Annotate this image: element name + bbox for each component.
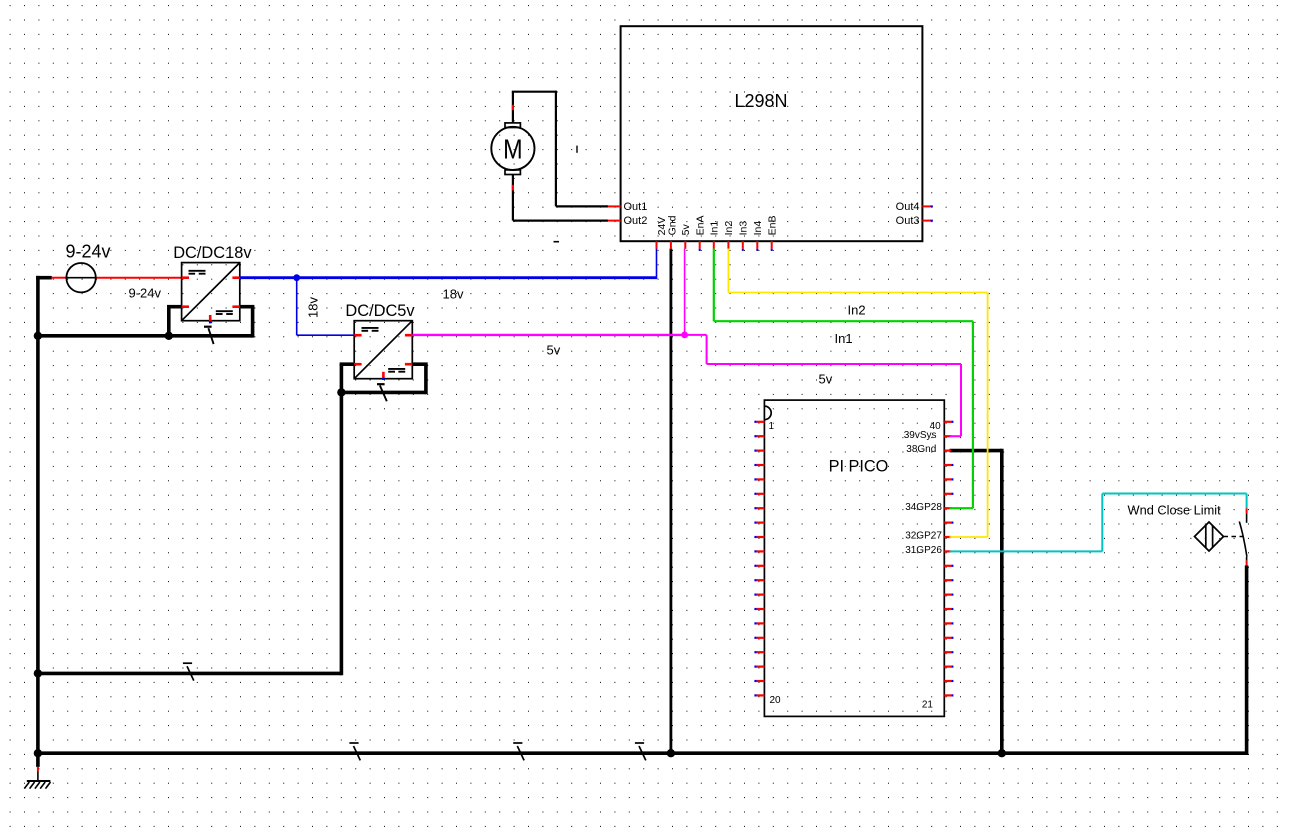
svg-text:18v: 18v xyxy=(306,297,321,318)
pin PICO left 15 xyxy=(757,622,765,624)
wire ground horizontal under DC/DC18v xyxy=(36,334,253,338)
pin DC/DC5v input - xyxy=(354,363,361,366)
svg-text:39vSys: 39vSys xyxy=(904,430,937,441)
pin PICO left 18 xyxy=(757,665,765,667)
svg-text:DC/DC18v: DC/DC18v xyxy=(173,244,252,262)
wire 18v branch down to DC/DC5v xyxy=(296,278,298,336)
switch blade xyxy=(1239,522,1247,557)
svg-text:M: M xyxy=(503,133,523,164)
wire limit switch bottom drop xyxy=(1245,566,1249,756)
chassis mark below DC/DC18v xyxy=(204,326,212,328)
svg-text:PI PICO: PI PICO xyxy=(829,457,889,475)
dc/dc converter DC/DC18v xyxy=(182,263,240,324)
pin PICO right 39 xyxy=(944,435,951,437)
pin L298N Gnd xyxy=(670,241,672,249)
pin PICO right 32 xyxy=(944,536,951,538)
pin PICO right 25 xyxy=(944,637,951,639)
pin DC/DC18v input + xyxy=(182,276,189,279)
pin L298N EnA xyxy=(699,241,701,249)
node junction magenta 5v xyxy=(681,332,688,339)
node junction gnd DC5v xyxy=(337,388,345,396)
wire DC/DC5v ground vertical down xyxy=(340,392,344,675)
wire main left vertical bus (9-24v negative) xyxy=(36,276,40,753)
wire ground return horizontal y=673 xyxy=(36,672,341,676)
node junction gnd bottom left xyxy=(34,749,42,757)
pin PICO left 4 xyxy=(757,464,765,466)
wire DC/DC5v right-bottom pin drop xyxy=(424,364,428,394)
svg-text:In2: In2 xyxy=(723,221,735,236)
mark near motor (horizontal tick) xyxy=(554,241,560,243)
pin DC/DC18v case (unconnected) xyxy=(209,315,212,321)
pin PICO right 22 xyxy=(944,680,951,682)
svg-text:5v: 5v xyxy=(819,372,833,387)
wire motor top to L298N Out1 xyxy=(512,92,514,123)
wire In1 green: L298N In1 to PICO GP28 xyxy=(713,249,715,322)
pin PICO left 20 xyxy=(757,694,765,696)
pin PICO right 27 xyxy=(944,608,951,610)
wire PI PICO pin38 Gnd to bus xyxy=(950,449,1002,453)
pin PICO right 23 xyxy=(944,665,951,667)
wire 5v magenta to PICO vSys xyxy=(685,334,707,336)
wire tick bus 2 xyxy=(635,742,644,744)
pin PICO left 3 xyxy=(757,450,765,452)
svg-text:Out1: Out1 xyxy=(624,201,648,213)
pin PICO left 2 xyxy=(757,435,765,437)
svg-text:Out2: Out2 xyxy=(624,215,648,227)
wire ground horizontal under DC/DC5v xyxy=(341,391,426,395)
pin PICO right 26 xyxy=(944,622,951,624)
pin PICO left 12 xyxy=(757,579,765,581)
pin PICO left 11 xyxy=(757,565,765,567)
svg-text:Out4: Out4 xyxy=(896,201,920,213)
mark near motor (vertical tick) xyxy=(576,146,578,153)
svg-text:In1: In1 xyxy=(709,221,721,236)
svg-text:Gnd: Gnd xyxy=(667,215,679,235)
pin DC/DC18v output - xyxy=(232,305,239,308)
pin L298N In2 xyxy=(727,241,729,249)
wire tick bus 1 xyxy=(513,742,522,744)
pin PICO right 33 xyxy=(944,521,951,523)
pin L298N EnB xyxy=(771,241,773,249)
pin L298N In4 xyxy=(756,241,758,249)
pin PICO left 7 xyxy=(757,507,765,509)
pin DC/DC5v output - xyxy=(405,363,412,366)
pin DC/DC18v output + xyxy=(232,276,239,279)
pin DC/DC18v input - xyxy=(182,305,189,308)
pin PICO right 29 xyxy=(944,579,951,581)
pin DC/DC5v input + xyxy=(354,334,361,337)
pin PICO left 19 xyxy=(757,680,765,682)
node junction gnd DC18 xyxy=(165,332,173,340)
dc/dc converter DC/DC5v xyxy=(354,321,412,380)
wire bottom ground bus xyxy=(36,751,1247,755)
pin PICO right 31 xyxy=(944,550,951,552)
motor M1 xyxy=(491,123,534,175)
svg-text:38Gnd: 38Gnd xyxy=(906,444,936,455)
pin PICO left 5 xyxy=(757,478,765,480)
pin PICO left 1 xyxy=(757,421,765,423)
wire tick bus 3 xyxy=(349,742,358,744)
svg-text:In2: In2 xyxy=(848,303,866,318)
pin DC/DC5v case (unconnected) xyxy=(382,372,385,378)
pin PICO left 9 xyxy=(757,536,765,538)
svg-text:DC/DC5v: DC/DC5v xyxy=(345,302,415,320)
pin motor terminal 2 (red) xyxy=(512,185,514,191)
svg-text:L298N: L298N xyxy=(735,91,788,111)
pin L298N In3 xyxy=(742,241,744,249)
actuator diamond xyxy=(1195,522,1224,551)
svg-text:EnB: EnB xyxy=(767,216,779,236)
pin PICO right 36 xyxy=(944,478,951,480)
pin PICO right 34 xyxy=(944,507,951,509)
svg-text:31GP26: 31GP26 xyxy=(905,545,942,556)
pin PICO right 30 xyxy=(944,565,951,567)
svg-text:9-24v: 9-24v xyxy=(129,286,162,301)
wire tick gnd return xyxy=(183,662,192,664)
svg-text:5v: 5v xyxy=(680,224,692,236)
svg-text:21: 21 xyxy=(922,700,934,711)
pin PICO left 17 xyxy=(757,651,765,653)
switch S1 Wnd Close Limit xyxy=(1195,508,1247,565)
pin L298N In1 xyxy=(713,241,715,249)
MCU U2 PI PICO block xyxy=(764,400,944,716)
pin L298N Out1 xyxy=(608,205,621,207)
node junction gnd L298N xyxy=(667,749,675,757)
pin PICO right 28 xyxy=(944,593,951,595)
svg-text:Wnd Close Limit: Wnd Close Limit xyxy=(1128,502,1222,517)
node junction blue 18v xyxy=(293,274,300,281)
wire GP26 cyan to limit switch xyxy=(950,550,1103,552)
pin L298N Out2 xyxy=(608,220,621,222)
wire L298N Gnd vertical to bus xyxy=(670,249,673,754)
pin L298N 5v xyxy=(684,241,686,249)
svg-text:20: 20 xyxy=(770,695,782,706)
chassis mark below DC/DC5v xyxy=(377,383,385,385)
svg-text:In4: In4 xyxy=(752,221,764,236)
wire motor bottom to L298N Out2 xyxy=(512,175,514,221)
svg-text:32GP27: 32GP27 xyxy=(905,531,942,542)
pin PICO right 38 xyxy=(944,450,951,452)
pin PICO left 6 xyxy=(757,493,765,495)
pin PICO right 21 xyxy=(944,694,951,696)
svg-text:34GP28: 34GP28 xyxy=(905,502,942,513)
wire 5v magenta: DC5v out to L298N 5v pin xyxy=(412,334,684,336)
svg-text:18v: 18v xyxy=(443,286,464,301)
svg-text:1: 1 xyxy=(769,421,775,432)
svg-text:9-24v: 9-24v xyxy=(66,242,111,262)
svg-text:EnA: EnA xyxy=(695,216,707,236)
ground earth symbol xyxy=(24,753,50,788)
node junction gnd pico xyxy=(998,749,1006,757)
pin PICO left 8 xyxy=(757,521,765,523)
pin PICO left 10 xyxy=(757,550,765,552)
pin PICO left 16 xyxy=(757,637,765,639)
svg-text:Out3: Out3 xyxy=(896,215,920,227)
pin PICO right 24 xyxy=(944,651,951,653)
pin PICO left 13 xyxy=(757,593,765,595)
actuator link dashed xyxy=(1224,536,1244,538)
svg-text:In3: In3 xyxy=(738,221,750,236)
pin L298N Out4 xyxy=(922,205,930,207)
node junction gnd left mid xyxy=(34,669,42,677)
svg-text:5v: 5v xyxy=(547,343,561,358)
pin motor terminal 1 (red) xyxy=(512,105,514,110)
svg-text:In1: In1 xyxy=(835,331,853,346)
wire DC/DC5v left-bottom pin drop xyxy=(340,364,344,394)
pin L298N 24V xyxy=(656,241,658,249)
pin PICO left 14 xyxy=(757,608,765,610)
pin PICO right 35 xyxy=(944,493,951,495)
pin L298N Out3 xyxy=(922,220,930,222)
pin DC/DC5v output + xyxy=(405,334,412,337)
pin switch bottom xyxy=(1246,560,1248,565)
wire DC/DC18v left-bottom pin drop xyxy=(167,307,171,338)
op-amp U1 L298N block xyxy=(621,26,923,241)
voltage source 9-24v xyxy=(52,277,67,279)
wire 9-24v blue 18v net: DC18 out to L298N 24V xyxy=(240,276,657,279)
pin PICO right 40 xyxy=(944,421,951,423)
node junction gnd left top xyxy=(34,332,42,340)
pin switch top xyxy=(1246,508,1248,513)
wire DC/DC18v right-bottom pin drop xyxy=(251,307,255,338)
pin PICO right 37 xyxy=(944,464,951,466)
wire top-left corner to source xyxy=(36,276,52,280)
wire In2 yellow: L298N In2 to PICO GP27 xyxy=(727,249,729,293)
